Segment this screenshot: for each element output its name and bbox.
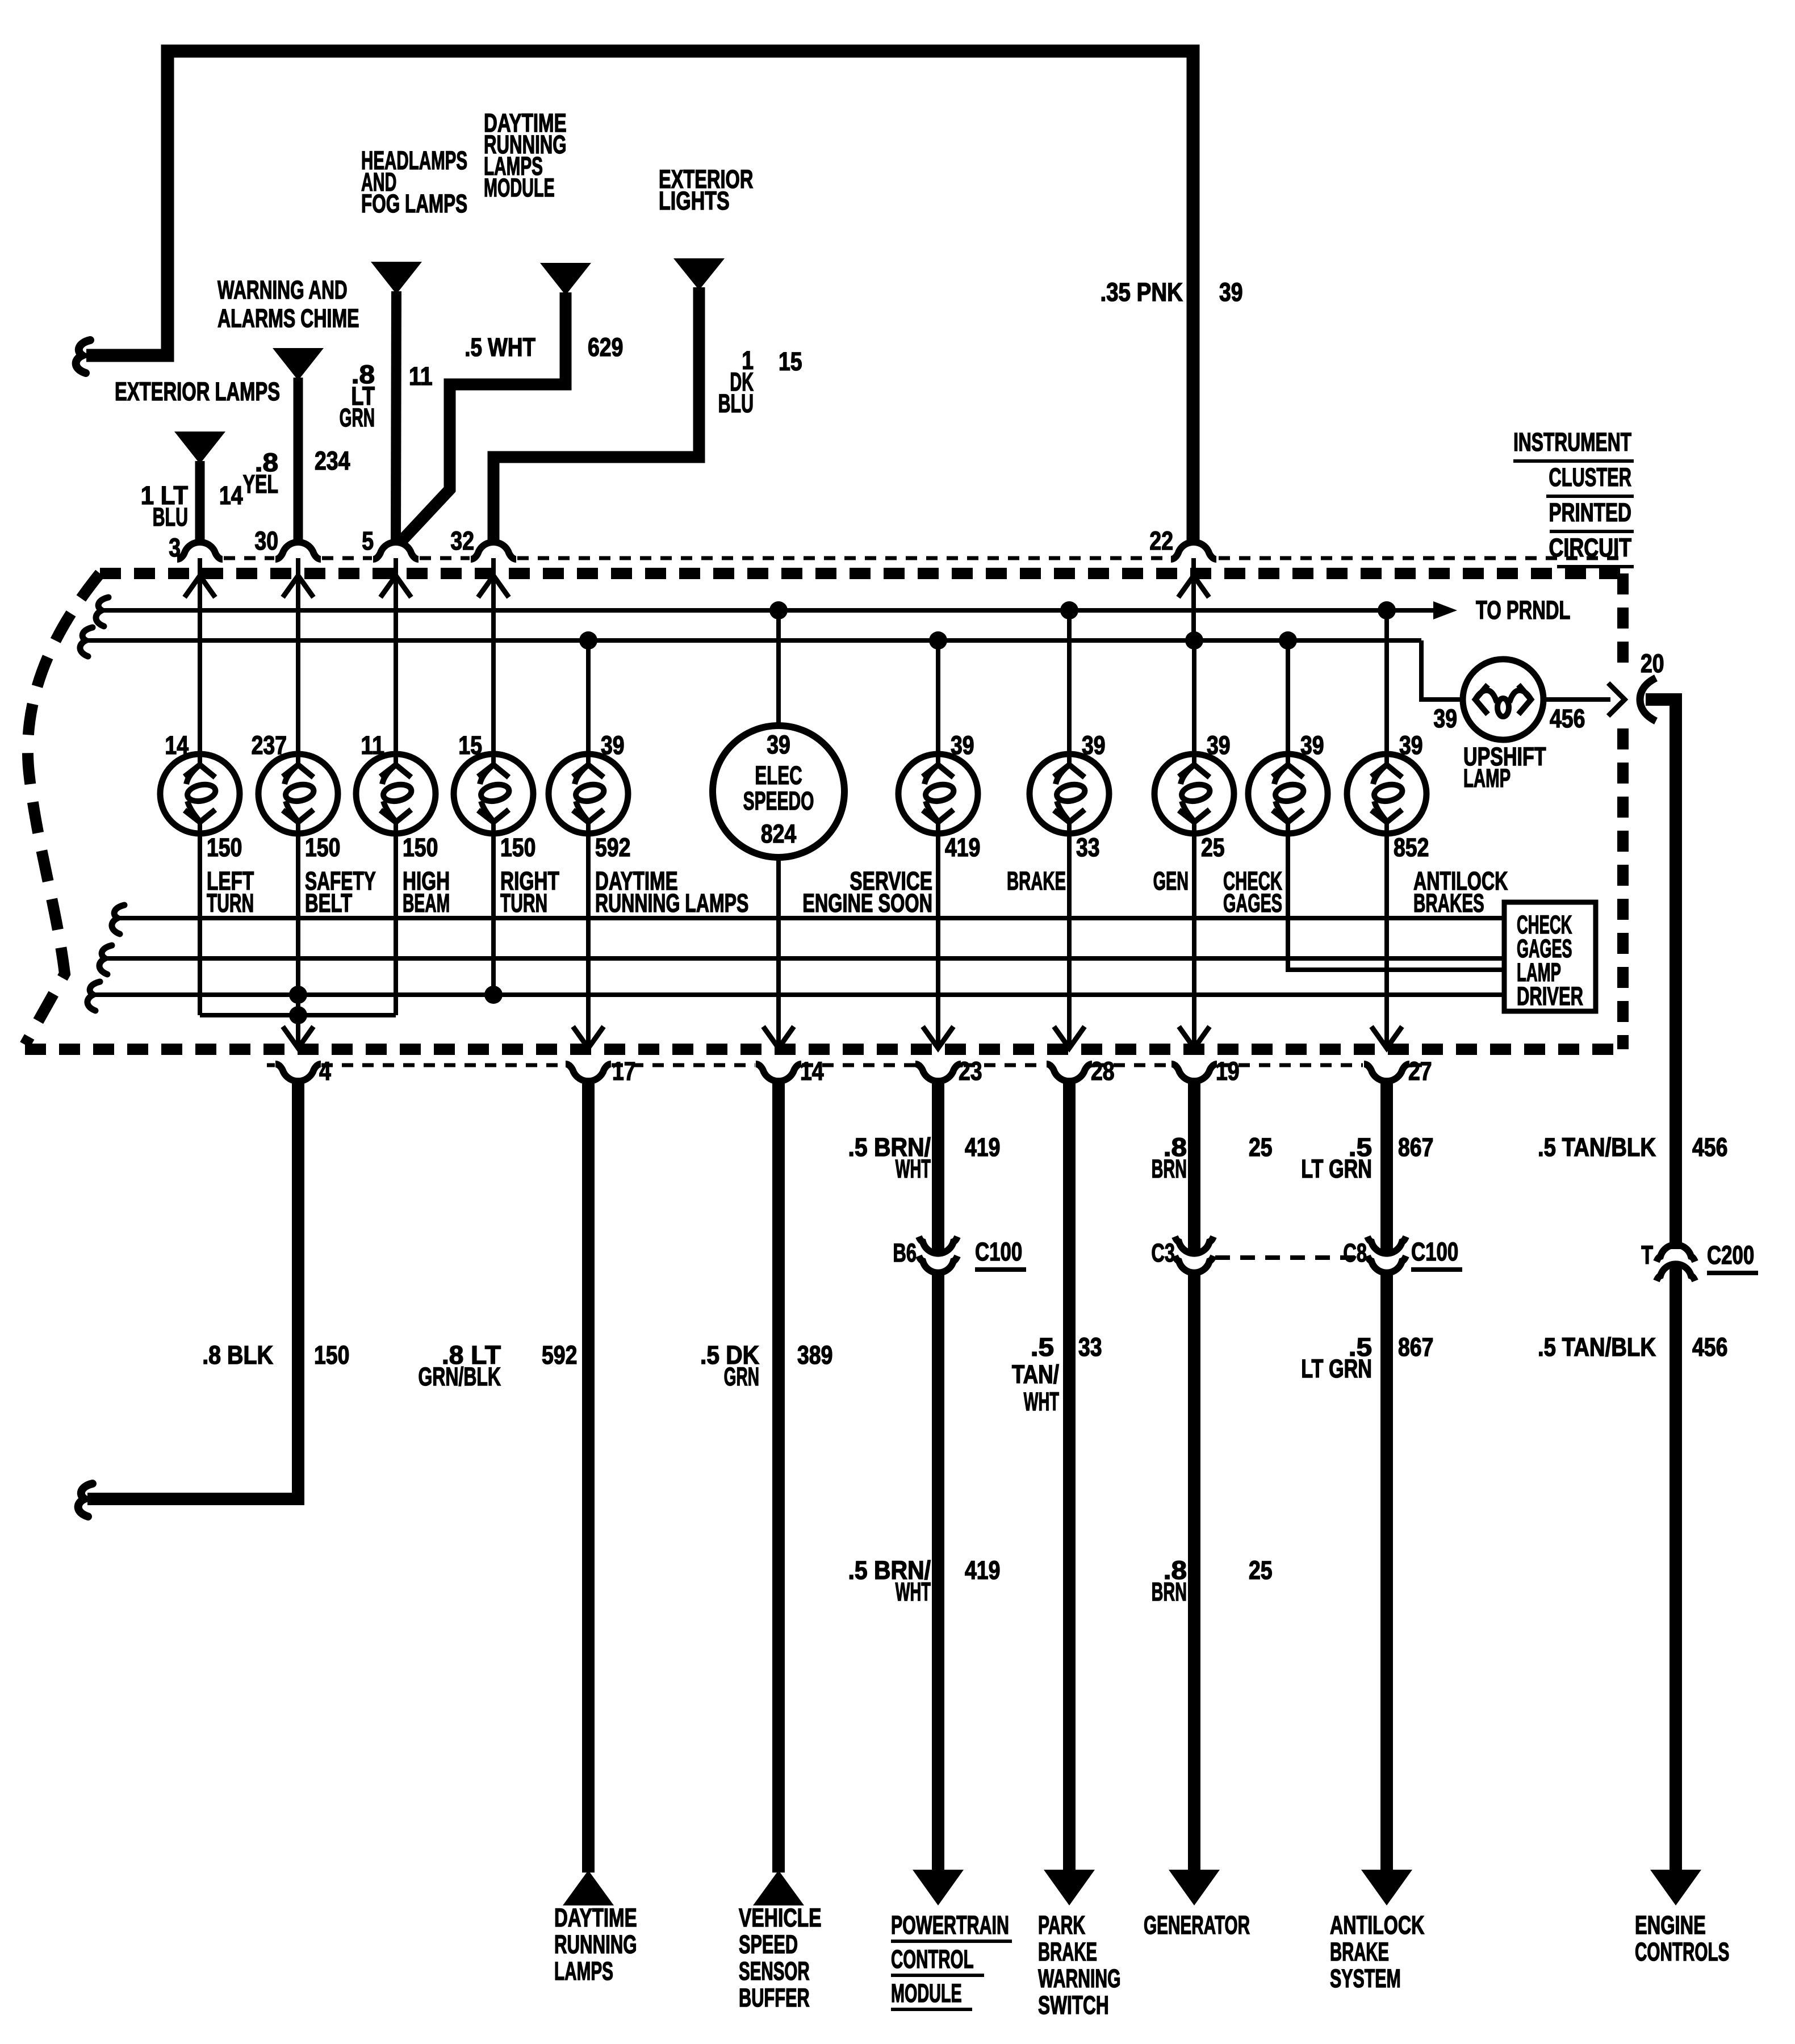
wire: brake lamp down to pin 28 bbox=[1067, 821, 1072, 1048]
svg-text:28: 28 bbox=[1091, 1057, 1115, 1086]
svg-text:ENGINE: ENGINE bbox=[1635, 1911, 1706, 1940]
wire: pin 22 feed to gen lamp bbox=[1191, 558, 1196, 640]
svg-text:BLU: BLU bbox=[153, 503, 188, 531]
wire: service engine lamp down to pin 23 bbox=[936, 821, 940, 1048]
lamp: DAYTIME RUNNING LAMPS indicator (circuit 39/592) bbox=[549, 731, 748, 918]
svg-text:25: 25 bbox=[1249, 1556, 1273, 1585]
svg-text:YEL: YEL bbox=[243, 471, 278, 499]
wire: bus B to DRL lamp bbox=[586, 640, 591, 767]
svg-text:ALARMS CHIME: ALARMS CHIME bbox=[217, 305, 359, 333]
connector C100 pin C3 (generator wire) bbox=[1151, 1237, 1214, 1273]
svg-text:BRN: BRN bbox=[1152, 1578, 1187, 1607]
wire: upshift lamp to pin 20 bbox=[1543, 683, 1625, 716]
wire: pin 17 to daytime running lamps (.8 LT GRN/BLK 592) bbox=[418, 1082, 637, 1986]
svg-text:14: 14 bbox=[165, 731, 189, 760]
wire: pin 14 to vehicle speed sensor buffer (.5 DK GRN 389) bbox=[700, 1082, 832, 2013]
svg-text:.5 TAN/BLK: .5 TAN/BLK bbox=[1538, 1133, 1656, 1162]
svg-text:PRINTED: PRINTED bbox=[1549, 499, 1631, 527]
svg-text:39: 39 bbox=[1300, 731, 1324, 760]
svg-text:DRIVER: DRIVER bbox=[1517, 982, 1583, 1011]
svg-text:POWERTRAIN: POWERTRAIN bbox=[891, 1911, 1009, 1940]
printed circuit bus C (check gages sense) bbox=[112, 905, 1504, 934]
junction: DRL lamp tap on bus B bbox=[579, 631, 597, 650]
svg-text:LT GRN: LT GRN bbox=[1301, 1155, 1372, 1184]
gauge: ELEC SPEEDO (circuit 39/824) bbox=[713, 726, 844, 857]
wire: bus A to brake lamp bbox=[1067, 610, 1072, 767]
svg-text:419: 419 bbox=[965, 1556, 1000, 1585]
pin 22: cluster connector terminal (top row) bbox=[1149, 527, 1216, 597]
svg-text:.35 PNK: .35 PNK bbox=[1100, 278, 1183, 306]
svg-text:11: 11 bbox=[361, 731, 384, 760]
svg-text:19: 19 bbox=[1216, 1057, 1240, 1086]
svg-text:22: 22 bbox=[1149, 527, 1173, 555]
wire: left turn lamp to ground link bbox=[198, 821, 202, 1015]
wire: high beam lamp to ground link bbox=[394, 821, 398, 1015]
svg-text:TURN: TURN bbox=[500, 889, 547, 918]
printed circuit bus B (lamp feed 39) bbox=[80, 627, 1463, 700]
pin 32: cluster connector terminal (top row) bbox=[450, 527, 516, 597]
svg-text:BEAM: BEAM bbox=[403, 889, 450, 917]
lamp: RIGHT TURN indicator (circuit 15/150) bbox=[454, 731, 559, 918]
svg-text:30: 30 bbox=[254, 527, 278, 555]
lamp: LEFT TURN indicator (circuit 14/150) bbox=[160, 731, 254, 918]
svg-text:TURN: TURN bbox=[207, 889, 254, 918]
svg-text:DAYTIME: DAYTIME bbox=[554, 1904, 637, 1932]
connector C100 pin C8 (antilock wire) bbox=[1343, 1237, 1462, 1273]
wire: gen lamp down to pin 19 bbox=[1192, 821, 1196, 1048]
svg-text:BELT: BELT bbox=[305, 889, 352, 918]
svg-text:RUNNING LAMPS: RUNNING LAMPS bbox=[595, 890, 748, 918]
off-page connector T3: HEADLAMPS AND FOG LAMPS (to pin 5) bbox=[361, 147, 467, 542]
connector C200 pin T (engine controls wire) bbox=[1641, 1241, 1758, 1281]
wire: pin 4 ground (.8 BLK 150) bbox=[78, 1082, 350, 1517]
svg-text:BLU: BLU bbox=[718, 389, 754, 418]
svg-text:SYSTEM: SYSTEM bbox=[1330, 1965, 1401, 1993]
svg-text:852: 852 bbox=[1394, 833, 1429, 862]
svg-text:23: 23 bbox=[959, 1057, 982, 1086]
junction: gen lamp tap on bus B (pin 22 feed) bbox=[1185, 631, 1203, 650]
svg-text:389: 389 bbox=[797, 1341, 832, 1369]
svg-text:39: 39 bbox=[1082, 731, 1106, 760]
svg-text:150: 150 bbox=[305, 833, 340, 862]
svg-text:SPEEDO: SPEEDO bbox=[743, 787, 814, 816]
svg-text:ENGINE SOON: ENGINE SOON bbox=[802, 890, 932, 918]
pin 23: cluster connector terminal (bottom row) bbox=[915, 1027, 982, 1086]
svg-text:419: 419 bbox=[945, 833, 980, 862]
svg-text:32: 32 bbox=[450, 527, 474, 555]
svg-text:33: 33 bbox=[1076, 833, 1100, 862]
instrument cluster box: left torn edge (curved dashed) bbox=[25, 573, 100, 1045]
svg-text:BRAKE: BRAKE bbox=[1330, 1938, 1389, 1967]
svg-text:BRAKE: BRAKE bbox=[1038, 1938, 1097, 1967]
pin 5: cluster connector terminal (top row) bbox=[362, 527, 419, 597]
svg-text:SWITCH: SWITCH bbox=[1038, 1992, 1109, 2020]
svg-text:C100: C100 bbox=[1411, 1238, 1458, 1266]
junction: right turn lamp on bus E bbox=[484, 986, 503, 1004]
svg-text:14: 14 bbox=[800, 1057, 824, 1086]
label: wire .5 WHT circuit 629 bbox=[465, 333, 623, 362]
svg-text:39: 39 bbox=[1433, 705, 1457, 733]
svg-text:B6: B6 bbox=[893, 1239, 917, 1267]
label: wire .8 YEL circuit 234 (pin 30 wire) bbox=[243, 447, 350, 499]
wire: bus B to service engine soon lamp bbox=[936, 640, 940, 767]
svg-text:WHT: WHT bbox=[896, 1577, 931, 1606]
svg-text:25: 25 bbox=[1249, 1133, 1273, 1162]
wire: DRL lamp down to pin 17 bbox=[586, 821, 591, 1048]
junction: ground link at safety-belt wire bbox=[289, 1006, 307, 1024]
wire: check gages lamp to lamp driver box bbox=[1288, 821, 1504, 970]
wire: right turn lamp to bus E bbox=[491, 821, 496, 995]
connector C100 pin B6 (powertrain wire) bbox=[893, 1237, 1026, 1273]
svg-text:LT GRN: LT GRN bbox=[1301, 1355, 1372, 1384]
svg-text:C100: C100 bbox=[975, 1238, 1022, 1266]
svg-text:39: 39 bbox=[601, 731, 625, 760]
svg-text:WHT: WHT bbox=[1024, 1387, 1060, 1416]
wire: safety belt lamp down to pin 4 bbox=[296, 821, 300, 1048]
wire: antilock lamp down to pin 27 bbox=[1384, 821, 1389, 1048]
junction: check-gages lamp tap on bus B bbox=[1279, 631, 1297, 650]
svg-text:MODULE: MODULE bbox=[484, 174, 555, 203]
lamp: SERVICE ENGINE SOON indicator (circuit 39/419) bbox=[802, 731, 980, 918]
wire: pin 30 to safety belt lamp bbox=[296, 558, 300, 767]
svg-text:867: 867 bbox=[1398, 1133, 1433, 1162]
instrument cluster box: top edge (thick dashed) bbox=[100, 568, 1623, 579]
wire: bus B to check gages lamp bbox=[1286, 640, 1290, 767]
pin 19: cluster connector terminal (bottom row) bbox=[1171, 1027, 1240, 1086]
lamp: HIGH BEAM indicator (circuit 11/150) bbox=[356, 731, 450, 918]
module: CHECK GAGES LAMP DRIVER bbox=[1504, 902, 1596, 1011]
off-page connector T5: EXTERIOR LIGHTS (to pin 32, 1 DK BLU 15) bbox=[493, 165, 753, 542]
wire: C3 to C8 connector link (dashed) bbox=[1215, 1255, 1366, 1260]
printed circuit bus D (lamp driver line) bbox=[99, 945, 1504, 974]
lamp: CHECK GAGES indicator (circuit 39) bbox=[1223, 731, 1328, 918]
junction: antilock lamp tap on bus A bbox=[1378, 601, 1396, 619]
junction: safety belt lamp on bus E bbox=[289, 986, 307, 1004]
svg-text:39: 39 bbox=[1399, 731, 1423, 760]
svg-text:15: 15 bbox=[779, 347, 802, 376]
svg-text:GRN: GRN bbox=[340, 403, 375, 432]
lamp: GEN indicator (circuit 39/25) bbox=[1153, 731, 1234, 896]
svg-text:FOG LAMPS: FOG LAMPS bbox=[361, 190, 467, 219]
wire: pin 5 to high beam lamp bbox=[394, 558, 398, 767]
off-page connector T2: WARNING AND ALARMS CHIME (to pin 30) bbox=[217, 277, 359, 542]
svg-text:419: 419 bbox=[965, 1133, 1000, 1162]
instrument cluster box: bottom edge (thick dashed) bbox=[25, 1044, 1623, 1055]
svg-text:.5 WHT: .5 WHT bbox=[465, 333, 535, 362]
svg-text:VEHICLE: VEHICLE bbox=[739, 1904, 822, 1932]
svg-text:ANTILOCK: ANTILOCK bbox=[1330, 1912, 1424, 1940]
svg-text:592: 592 bbox=[595, 833, 630, 862]
wire: pin 19 to generator (.8 BRN 25) bbox=[1144, 1082, 1273, 1940]
svg-text:592: 592 bbox=[542, 1341, 577, 1369]
svg-text:150: 150 bbox=[314, 1341, 349, 1369]
svg-text:456: 456 bbox=[1692, 1133, 1727, 1162]
svg-text:234: 234 bbox=[315, 447, 350, 475]
svg-text:GEN: GEN bbox=[1153, 868, 1189, 896]
wire break symbol: left end of pink feed wire bbox=[76, 340, 90, 373]
svg-text:TO PRNDL: TO PRNDL bbox=[1476, 596, 1570, 625]
wire: pin 28 to park brake warning switch (.5 TAN/WHT 33) bbox=[1012, 1082, 1121, 2020]
svg-text:WARNING AND: WARNING AND bbox=[217, 277, 348, 305]
svg-text:629: 629 bbox=[588, 333, 623, 362]
svg-text:15: 15 bbox=[458, 731, 482, 760]
wire: elec speedo down to pin 14 bbox=[776, 857, 781, 1048]
label: .35 PNK 39 on pink feed wire bbox=[1100, 278, 1242, 307]
svg-text:CONTROLS: CONTROLS bbox=[1635, 1938, 1729, 1967]
svg-text:RUNNING: RUNNING bbox=[554, 1930, 637, 1959]
svg-text:C3: C3 bbox=[1151, 1239, 1175, 1267]
svg-text:150: 150 bbox=[500, 833, 535, 862]
pin 20: cluster output to engine controls bbox=[1640, 650, 1664, 721]
lamp: UPSHIFT LAMP (circuit 39/456) bbox=[1433, 659, 1585, 793]
label: wire 1 LT BLU circuit 14 (pin 3 wire) bbox=[141, 481, 243, 532]
svg-text:.5 TAN/BLK: .5 TAN/BLK bbox=[1538, 1333, 1656, 1362]
connector face line (thin dashed, bottom pin row) bbox=[267, 1063, 1425, 1067]
wire: pin 27 to antilock brake system (.5 LT GRN 867) bbox=[1301, 1082, 1433, 1993]
svg-text:5: 5 bbox=[362, 527, 374, 555]
pin 17: cluster connector terminal (bottom row) bbox=[566, 1027, 636, 1086]
pin 14: cluster connector terminal (bottom row) bbox=[756, 1027, 824, 1086]
svg-text:SPEED: SPEED bbox=[739, 1930, 798, 1959]
svg-text:3: 3 bbox=[169, 534, 181, 562]
svg-text:CONTROL: CONTROL bbox=[891, 1946, 974, 1974]
svg-text:LAMP: LAMP bbox=[1463, 765, 1511, 793]
svg-text:T: T bbox=[1641, 1242, 1653, 1270]
svg-text:824: 824 bbox=[761, 820, 796, 848]
wire: ground link left-turn / high-beam to pin 4 bbox=[200, 1013, 396, 1017]
svg-text:39: 39 bbox=[1207, 731, 1231, 760]
svg-text:456: 456 bbox=[1692, 1333, 1727, 1362]
svg-text:.5: .5 bbox=[1031, 1333, 1054, 1362]
svg-text:867: 867 bbox=[1398, 1333, 1433, 1362]
wire: pin 20 to engine controls (.5 TAN/BLK 456) bbox=[1538, 700, 1729, 1967]
pin 30: cluster connector terminal (top row) bbox=[254, 527, 321, 597]
junction: brake lamp tap on bus A bbox=[1060, 601, 1078, 619]
svg-text:39: 39 bbox=[1219, 278, 1243, 307]
svg-text:GAGES: GAGES bbox=[1223, 890, 1282, 918]
svg-text:14: 14 bbox=[219, 481, 243, 510]
label: wire 1 DK BLU circuit 15 bbox=[718, 346, 802, 418]
svg-text:CLUSTER: CLUSTER bbox=[1549, 463, 1631, 492]
junction: speedo tap on bus A bbox=[769, 601, 788, 619]
svg-text:.8 BLK: .8 BLK bbox=[202, 1341, 273, 1369]
svg-text:MODULE: MODULE bbox=[891, 1980, 962, 2008]
svg-text:27: 27 bbox=[1408, 1057, 1432, 1086]
off-page connector T4: DAYTIME RUNNING LAMPS MODULE (to pin 5, .5 WHT 629) bbox=[400, 109, 591, 543]
instrument cluster box: right edge (thick dashed) bbox=[1617, 573, 1629, 1049]
printed circuit bus E (ground return) bbox=[87, 982, 1504, 1011]
wire: bus A to elec speedo bbox=[776, 610, 781, 726]
svg-text:WARNING: WARNING bbox=[1038, 1965, 1121, 1993]
svg-text:BRAKE: BRAKE bbox=[1007, 868, 1066, 896]
svg-text:EXTERIOR LAMPS: EXTERIOR LAMPS bbox=[115, 378, 280, 406]
svg-text:11: 11 bbox=[409, 362, 433, 391]
wire: instrument cluster feed, top border (.35 PNK circuit 39) bbox=[86, 51, 1193, 541]
svg-text:BUFFER: BUFFER bbox=[739, 1984, 810, 2012]
lamp: BRAKE indicator (circuit 39/33) bbox=[1007, 731, 1109, 896]
svg-text:LIGHTS: LIGHTS bbox=[659, 187, 730, 216]
svg-text:BRN: BRN bbox=[1152, 1155, 1187, 1184]
svg-text:C200: C200 bbox=[1707, 1241, 1754, 1270]
lamp: ANTILOCK BRAKES indicator (circuit 39/852) bbox=[1347, 731, 1508, 918]
junction: service-engine lamp tap on bus B bbox=[929, 631, 947, 650]
svg-text:GRN/BLK: GRN/BLK bbox=[418, 1363, 501, 1392]
connector face line (thin dashed, top pin row) bbox=[224, 556, 1623, 560]
svg-text:SENSOR: SENSOR bbox=[739, 1958, 810, 1986]
svg-text:C8: C8 bbox=[1343, 1239, 1367, 1267]
svg-text:INSTRUMENT: INSTRUMENT bbox=[1513, 429, 1631, 457]
wire: bus B junction down to gen lamp bbox=[1192, 640, 1196, 767]
svg-text:20: 20 bbox=[1641, 650, 1664, 678]
svg-text:LAMPS: LAMPS bbox=[554, 1957, 613, 1986]
svg-text:17: 17 bbox=[612, 1057, 636, 1086]
label: POWERTRAIN CONTROL MODULE bbox=[891, 1911, 1012, 2009]
svg-text:ELEC: ELEC bbox=[755, 761, 802, 790]
wire: pin 3 to left turn lamp bbox=[198, 558, 202, 767]
label block: INSTRUMENT CLUSTER PRINTED CIRCUIT bbox=[1513, 429, 1634, 567]
lamp: SAFETY BELT indicator (circuit 237/150) bbox=[252, 731, 376, 918]
svg-text:GRN: GRN bbox=[724, 1362, 759, 1390]
svg-text:BRAKES: BRAKES bbox=[1413, 890, 1484, 918]
pin 27: cluster connector terminal (bottom row) bbox=[1364, 1027, 1432, 1086]
printed circuit bus A (to PRNDL feed) bbox=[96, 596, 1570, 626]
pin 3: cluster connector terminal (top row) bbox=[169, 534, 223, 597]
wire: bus A to antilock lamp bbox=[1384, 610, 1389, 767]
svg-text:39: 39 bbox=[951, 731, 974, 760]
svg-text:WHT: WHT bbox=[896, 1154, 931, 1183]
svg-text:39: 39 bbox=[767, 731, 790, 759]
pin 28: cluster connector terminal (bottom row) bbox=[1047, 1027, 1115, 1086]
wire: pin 32 to right turn lamp bbox=[491, 558, 496, 767]
label: wire .8 LT GRN circuit 11 (pin 5 wire) bbox=[340, 361, 433, 432]
svg-text:456: 456 bbox=[1550, 705, 1585, 733]
svg-text:25: 25 bbox=[1201, 833, 1225, 862]
svg-text:4: 4 bbox=[319, 1057, 331, 1086]
svg-text:237: 237 bbox=[252, 731, 287, 760]
svg-text:GENERATOR: GENERATOR bbox=[1144, 1911, 1250, 1940]
svg-text:33: 33 bbox=[1078, 1333, 1102, 1362]
off-page connector T1: EXTERIOR LAMPS (to pin 3) bbox=[115, 378, 280, 542]
svg-text:150: 150 bbox=[403, 833, 438, 862]
svg-text:TAN/: TAN/ bbox=[1012, 1360, 1060, 1389]
pin 4: cluster connector terminal (bottom row) bbox=[275, 1027, 331, 1086]
svg-text:PARK: PARK bbox=[1038, 1911, 1085, 1940]
wire: pin 23 to powertrain control module (.5 BRN/WHT 419) bbox=[848, 1082, 1000, 1905]
svg-text:150: 150 bbox=[207, 833, 242, 862]
